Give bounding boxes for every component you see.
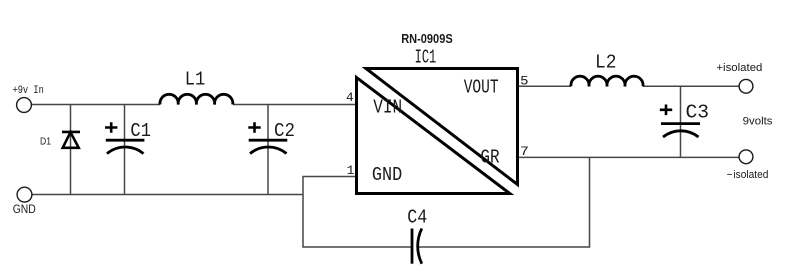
svg-text:C3: C3 (686, 102, 710, 124)
svg-text:L2: L2 (595, 52, 617, 74)
svg-text:RN-0909S: RN-0909S (401, 32, 453, 46)
svg-text:GND: GND (372, 164, 402, 186)
svg-text:7: 7 (520, 144, 529, 159)
svg-text:IC1: IC1 (415, 46, 437, 68)
svg-text:4: 4 (346, 90, 354, 105)
svg-text:− isolated: − isolated (727, 169, 769, 181)
svg-text:VOUT: VOUT (464, 76, 499, 98)
svg-text:+9v In: +9v In (13, 85, 44, 97)
svg-text:C2: C2 (274, 120, 295, 142)
svg-text:L1: L1 (185, 69, 206, 91)
svg-text:+isolated: +isolated (716, 62, 762, 74)
svg-text:9volts: 9volts (743, 116, 773, 128)
svg-text:GR: GR (480, 147, 499, 169)
svg-text:D1: D1 (40, 135, 51, 147)
svg-text:1: 1 (347, 163, 355, 178)
svg-text:C4: C4 (407, 207, 427, 229)
svg-text:5: 5 (520, 73, 528, 88)
svg-text:C1: C1 (130, 120, 151, 142)
svg-text:GND: GND (13, 204, 36, 216)
svg-text:VIN: VIN (373, 97, 402, 119)
